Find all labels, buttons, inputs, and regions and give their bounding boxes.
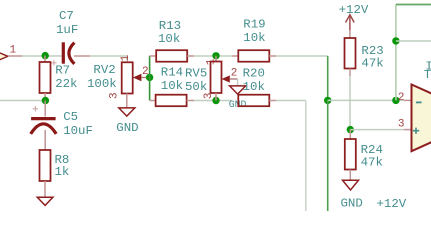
svg-text:1: 1 — [10, 45, 17, 57]
wire pin2 row — [328, 99, 411, 101]
svg-text:+: + — [32, 105, 39, 117]
node J3 — [146, 74, 153, 81]
svg-text:10k: 10k — [158, 32, 180, 46]
capacitor C7 — [51, 42, 90, 70]
wire feedback vertical x396 — [395, 5, 397, 101]
node J7 — [324, 97, 331, 104]
svg-text:2: 2 — [398, 92, 405, 104]
resistor R7 — [40, 56, 51, 101]
wire top right horizontal — [396, 4, 431, 6]
wire R20 right corner down to bottom edge — [276, 101, 306, 212]
svg-text:1k: 1k — [55, 165, 70, 179]
svg-text:50k: 50k — [185, 80, 207, 94]
input pin connector — [0, 52, 8, 61]
svg-text:47k: 47k — [361, 56, 383, 70]
svg-text:100k: 100k — [87, 77, 117, 91]
ground below RV2 — [119, 108, 135, 116]
trimmer RV2 — [109, 54, 150, 108]
svg-text:3: 3 — [109, 92, 121, 99]
wire left edge to J2 — [0, 100, 45, 102]
wire pin3 row — [350, 129, 410, 131]
wire vertical bus x150 — [149, 56, 151, 101]
wire R19 right to corner down to J7 — [276, 56, 328, 100]
svg-text:GND: GND — [341, 197, 363, 211]
svg-text:10k: 10k — [161, 79, 183, 93]
capacitor C5 — [31, 101, 57, 151]
ground below R24 — [343, 180, 359, 190]
svg-text:1: 1 — [120, 54, 132, 61]
svg-text:1uF: 1uF — [56, 23, 78, 37]
wire input row left — [8, 55, 62, 57]
ground below R8 — [37, 197, 53, 205]
svg-text:2: 2 — [231, 67, 238, 79]
wire J6 branch right — [396, 40, 431, 42]
resistor R24 — [345, 130, 356, 180]
svg-text:R14: R14 — [161, 65, 183, 79]
svg-text:10k: 10k — [243, 80, 265, 94]
wire C7 to RV2 pin1 — [90, 56, 127, 62]
svg-text:TL07: TL07 — [424, 68, 431, 82]
resistor R13 — [150, 50, 232, 62]
svg-text:10uF: 10uF — [63, 124, 93, 138]
svg-text:10k: 10k — [243, 31, 265, 45]
node J4 — [212, 52, 219, 59]
resistor R14 — [150, 95, 232, 107]
resistor R23 — [345, 38, 356, 130]
svg-text:GND: GND — [116, 121, 138, 135]
trimmer RV5 — [203, 56, 238, 101]
resistor R8 — [40, 150, 51, 197]
resistor R20 — [238, 95, 276, 107]
svg-text:+12V: +12V — [377, 197, 407, 211]
svg-text:C7: C7 — [59, 9, 74, 23]
wire J7 down to bottom edge — [327, 100, 329, 211]
ground at RV5 wiper — [230, 86, 246, 94]
svg-text:R13: R13 — [159, 19, 181, 33]
node J9 — [347, 126, 354, 133]
power +12V symbol top — [346, 15, 355, 38]
svg-text:R20: R20 — [243, 66, 265, 80]
svg-text:47k: 47k — [361, 155, 383, 169]
node J8 — [392, 97, 399, 104]
op-amp IC2 — [412, 85, 431, 152]
node J1 — [42, 52, 49, 59]
svg-text:R7: R7 — [55, 64, 70, 78]
svg-text:R19: R19 — [243, 17, 265, 31]
svg-text:C5: C5 — [63, 110, 78, 124]
svg-text:3: 3 — [398, 119, 405, 131]
svg-text:22k: 22k — [55, 77, 77, 91]
svg-text:RV2: RV2 — [93, 63, 115, 77]
node J5 — [212, 97, 219, 104]
resistor R19 — [232, 50, 276, 62]
node J6 — [392, 37, 399, 44]
svg-text:+12V: +12V — [339, 3, 369, 17]
svg-text:RV5: RV5 — [185, 67, 207, 81]
node J2 — [42, 97, 49, 104]
